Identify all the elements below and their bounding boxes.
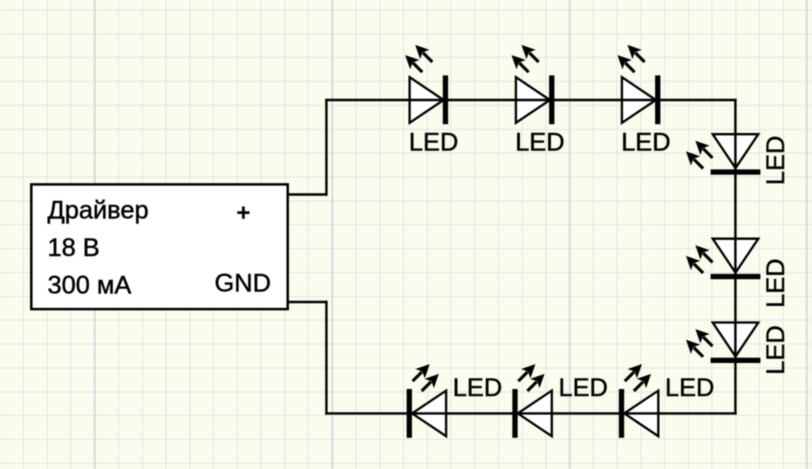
svg-text:18 В: 18 В [48, 234, 100, 262]
svg-text:GND: GND [215, 269, 271, 297]
LED D2 cathode bar [549, 75, 554, 124]
svg-text:Драйвер: Драйвер [48, 197, 149, 225]
svg-text:LED: LED [559, 374, 608, 402]
LED D6 cathode bar [711, 358, 761, 363]
wire: driver GND output [288, 301, 328, 303]
svg-text:300 мА: 300 мА [48, 272, 132, 300]
LED D3 cathode bar [655, 75, 660, 124]
LED D8 cathode bar [512, 389, 517, 438]
wire: driver + output to riser [288, 193, 328, 195]
LED D9 cathode bar [619, 389, 624, 438]
wire: bottom rail through D7 D8 D9 [325, 412, 736, 414]
LED D3 triangle (anode, top row) [622, 77, 656, 123]
svg-text:LED: LED [762, 325, 790, 374]
LED D6 triangle (anode, right column) [713, 323, 759, 357]
LED D5 triangle (anode, right column) [713, 239, 759, 273]
wire: top rail through D1 D2 D3 [325, 99, 736, 101]
LED D4 cathode bar [711, 169, 761, 174]
svg-text:LED: LED [409, 129, 458, 157]
LED D7 triangle (anode, bottom row) [412, 391, 446, 437]
wire: left riser up to top rail [325, 99, 327, 196]
emission arrows D5 [681, 241, 717, 278]
LED D1 cathode bar [443, 75, 448, 124]
wire: right rail through D4 D5 D6 [734, 99, 736, 415]
svg-text:LED: LED [453, 374, 502, 402]
svg-text:LED: LED [762, 136, 790, 185]
LED D7 cathode bar [407, 389, 412, 438]
emission arrows D1 [401, 40, 437, 77]
emission arrows D6 [681, 324, 717, 361]
LED D5 cathode bar [711, 274, 761, 279]
driver box U1 (Драйвер 18 В 300 мА) [31, 184, 287, 309]
emission arrows D4 [681, 136, 717, 173]
emission arrows D9 [620, 359, 656, 395]
LED D8 triangle (anode, bottom row) [518, 391, 552, 437]
LED D2 triangle (anode, top row) [516, 77, 550, 123]
emission arrows D7 [408, 359, 444, 395]
emission arrows D8 [514, 359, 550, 395]
svg-text:LED: LED [621, 129, 670, 157]
pin label + (plus output) [237, 206, 249, 218]
svg-text:LED: LED [762, 258, 790, 307]
LED D9 triangle (anode, bottom row) [624, 391, 658, 437]
LED D4 triangle (anode, right column) [713, 134, 759, 168]
emission arrows D3 [613, 40, 649, 77]
svg-text:LED: LED [665, 374, 714, 402]
LED D1 triangle (anode, top row) [410, 77, 444, 123]
emission arrows D2 [507, 40, 543, 77]
svg-text:LED: LED [515, 129, 564, 157]
wire: left riser down from GND [325, 301, 327, 415]
